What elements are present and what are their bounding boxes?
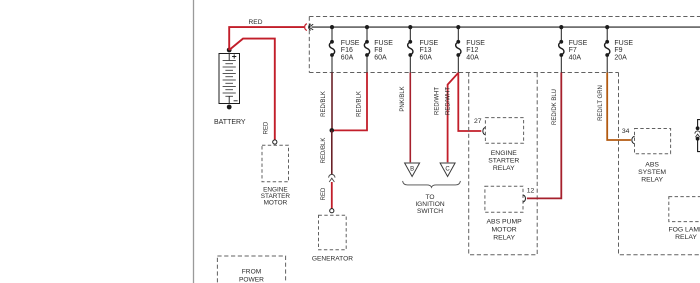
connector: bus inline connector xyxy=(305,24,314,31)
wire: F12 output branch to node C, RED/WHT xyxy=(435,73,459,163)
svg-text:RED/BLK: RED/BLK xyxy=(321,91,327,117)
svg-text:34: 34 xyxy=(622,128,630,135)
wire: bus line xyxy=(312,26,700,28)
svg-text:SYSTEM: SYSTEM xyxy=(638,169,666,176)
fuse F8 60A xyxy=(364,27,393,72)
svg-text:RELAY: RELAY xyxy=(493,165,515,172)
svg-text:RELAY: RELAY xyxy=(641,177,663,184)
wire: F16 output RED/BLK xyxy=(321,73,332,131)
svg-text:STARTER: STARTER xyxy=(488,157,519,164)
svg-text:IGNITION: IGNITION xyxy=(415,201,445,208)
pin 27 connector at engine starter relay xyxy=(474,118,486,135)
connector: inline connector on generator wire xyxy=(329,174,335,182)
wire: connector to generator RED xyxy=(321,182,332,209)
svg-text:FUSE: FUSE xyxy=(466,40,485,47)
svg-text:RED/WHT: RED/WHT xyxy=(445,87,451,115)
svg-text:GENERATOR: GENERATOR xyxy=(312,256,353,263)
svg-text:FUSE: FUSE xyxy=(374,40,393,47)
svg-text:ABS: ABS xyxy=(645,161,659,168)
terminal circle at generator xyxy=(330,209,334,213)
generator G1 xyxy=(312,215,353,262)
svg-text:RED: RED xyxy=(264,121,270,134)
svg-text:C: C xyxy=(445,167,450,173)
svg-text:RELAY: RELAY xyxy=(493,235,515,242)
node: bus taps xyxy=(330,25,609,29)
fuse F9 20A xyxy=(605,27,634,72)
svg-text:RED: RED xyxy=(249,19,263,26)
wire: F9 output RED/LT GRN to abs system relay xyxy=(598,73,631,141)
fuse F13 60A xyxy=(408,27,439,72)
fog lamp relay xyxy=(668,197,700,242)
svg-text:40A: 40A xyxy=(466,55,479,62)
svg-text:SWITCH: SWITCH xyxy=(417,208,443,215)
svg-text:RELAY: RELAY xyxy=(675,234,697,241)
svg-text:RED/LT GRN: RED/LT GRN xyxy=(598,85,604,121)
svg-text:FROM: FROM xyxy=(242,268,261,275)
fuse F12 40A xyxy=(456,27,486,72)
svg-text:POWER: POWER xyxy=(239,276,264,283)
svg-text:MOTOR: MOTOR xyxy=(264,200,288,207)
from power box xyxy=(217,256,285,283)
pin 34 connector at abs system relay xyxy=(622,128,635,144)
abs pump motor relay xyxy=(485,186,523,241)
svg-text:RED/DK BLU: RED/DK BLU xyxy=(552,89,558,125)
svg-text:RED/WHT: RED/WHT xyxy=(435,87,441,115)
wire: page edge line (decorative) xyxy=(193,0,195,283)
wire: F12 output to engine starter relay, RED/WHT xyxy=(445,73,481,132)
svg-text:F16: F16 xyxy=(341,47,353,54)
battery xyxy=(214,48,246,126)
svg-text:BATTERY: BATTERY xyxy=(214,119,246,126)
svg-text:40A: 40A xyxy=(569,55,582,62)
svg-text:F13: F13 xyxy=(420,47,432,54)
svg-text:RED/BLK: RED/BLK xyxy=(357,91,363,117)
svg-text:60A: 60A xyxy=(341,55,354,62)
label: to ignition switch xyxy=(415,194,445,215)
svg-text:ABS PUMP: ABS PUMP xyxy=(487,218,523,225)
node B: to ignition switch xyxy=(405,163,420,177)
brace under nodes B and C xyxy=(403,181,461,187)
node: junction of F16/F8 outputs xyxy=(330,128,335,133)
svg-text:12: 12 xyxy=(527,187,535,194)
wire: F7 output RED/DK BLU to abs pump motor relay xyxy=(527,73,561,199)
wire: F8 output RED/BLK xyxy=(332,73,367,131)
svg-text:27: 27 xyxy=(474,118,482,125)
svg-text:FUSE: FUSE xyxy=(569,40,588,47)
pin 12 connector at abs pump motor relay xyxy=(523,187,535,202)
svg-text:FUSE: FUSE xyxy=(341,40,360,47)
svg-text:MOTOR: MOTOR xyxy=(492,227,517,234)
svg-text:60A: 60A xyxy=(420,55,433,62)
wire: battery to engine starter motor, RED xyxy=(229,39,275,140)
relay box A dashed outline xyxy=(469,73,538,255)
wire: battery to fuse box bus, RED xyxy=(229,19,304,50)
svg-text:RED/BLK: RED/BLK xyxy=(321,138,327,164)
terminal circle at engine starter motor xyxy=(273,140,277,144)
svg-text:20A: 20A xyxy=(614,55,627,62)
svg-text:ENGINE: ENGINE xyxy=(491,150,518,157)
wire: F13 output PNK/BLK xyxy=(400,73,410,163)
svg-text:RED: RED xyxy=(321,187,327,200)
wire: junction to connector RED/BLK xyxy=(321,130,332,175)
svg-text:F12: F12 xyxy=(466,47,478,54)
svg-text:TO: TO xyxy=(425,194,434,201)
abs system relay xyxy=(635,129,671,184)
svg-text:60A: 60A xyxy=(374,55,387,62)
svg-text:F8: F8 xyxy=(374,47,382,54)
svg-text:F9: F9 xyxy=(614,47,622,54)
fuse box (junction block) dashed outline xyxy=(309,17,700,73)
svg-text:FOG LAMP: FOG LAMP xyxy=(668,227,700,234)
svg-text:PNK/BLK: PNK/BLK xyxy=(400,86,406,111)
svg-text:FUSE: FUSE xyxy=(614,40,633,47)
engine starter motor M1 xyxy=(261,145,291,206)
svg-text:FUSE: FUSE xyxy=(420,40,439,47)
engine starter relay xyxy=(485,118,523,172)
svg-text:F7: F7 xyxy=(569,47,577,54)
wire: right edge circuit stub xyxy=(695,120,700,152)
fuse F7 40A xyxy=(559,27,588,72)
svg-text:B: B xyxy=(410,167,414,173)
node C: to ignition switch xyxy=(440,163,455,177)
fuse F16 60A xyxy=(329,27,359,72)
relay box B dashed outline xyxy=(619,73,700,255)
